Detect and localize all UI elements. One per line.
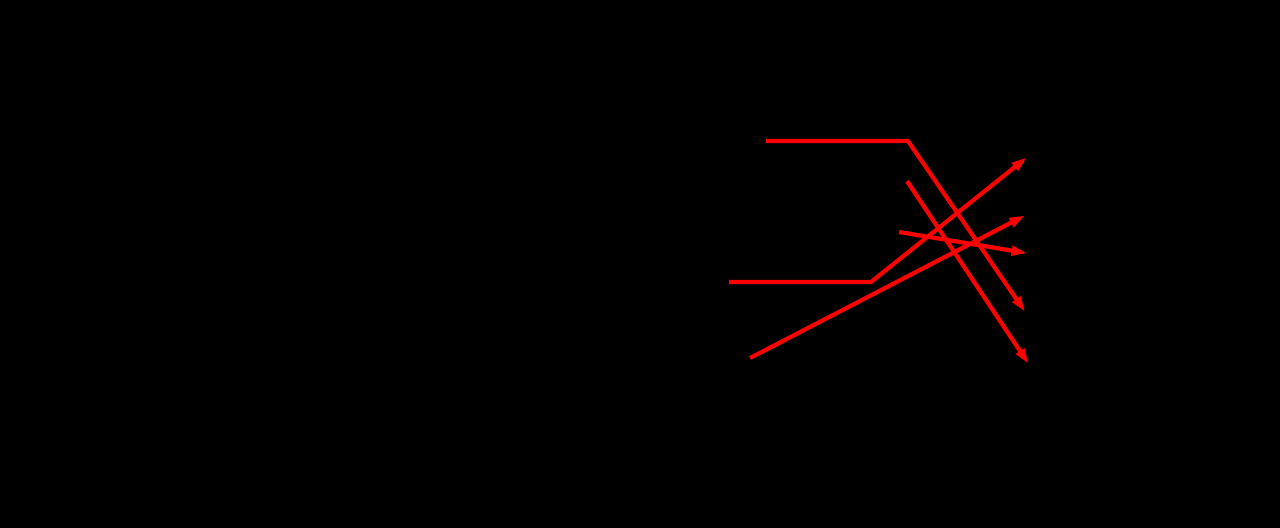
arrowhead 3 bbox=[1011, 158, 1026, 171]
arrow 5: short nearly-horizontal arrow right bbox=[899, 232, 1013, 251]
arrow 1: elbow arrow, horizontal then down-right bbox=[766, 141, 1017, 300]
arrowhead 1 bbox=[1012, 296, 1025, 311]
arrowhead 2 bbox=[1015, 348, 1028, 363]
arrow 2: straight arrow down-right bbox=[907, 181, 1021, 352]
arrowhead 4 bbox=[1009, 216, 1024, 228]
arrow 3: elbow arrow, horizontal then up-right bbox=[729, 166, 1016, 282]
arrowhead 5 bbox=[1011, 245, 1026, 256]
arrow 4: straight arrow up-right bbox=[750, 222, 1012, 358]
